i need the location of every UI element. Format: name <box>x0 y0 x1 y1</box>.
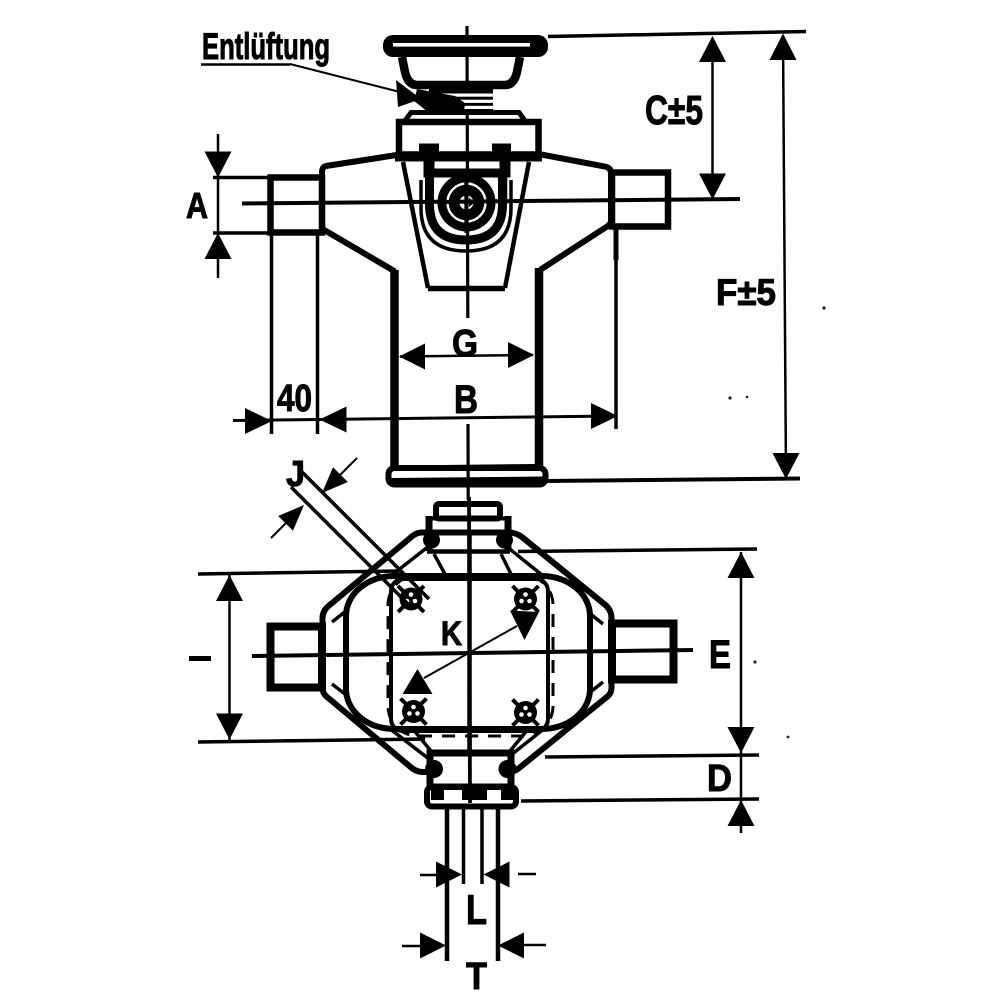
bell outer thin arc <box>421 180 511 251</box>
bottom stack <box>412 728 529 807</box>
bonnet flange trapezoid <box>404 113 526 123</box>
skirt <box>403 162 428 288</box>
scan specks <box>728 396 731 399</box>
white center hole <box>460 196 474 210</box>
centerline overlays through shaft <box>437 199 497 204</box>
vertical centerline <box>465 26 469 318</box>
extension lines below <box>270 230 274 434</box>
lower crosshair <box>467 530 472 800</box>
handwheel rim <box>383 35 548 57</box>
svg-text:D: D <box>707 758 732 800</box>
svg-text:F±5: F±5 <box>716 272 776 313</box>
svg-text:K: K <box>441 615 462 653</box>
left pipe (upper view) <box>271 178 323 233</box>
C dimension <box>711 40 714 196</box>
mounting square <box>391 579 548 731</box>
left pipe (lower view) <box>271 627 323 688</box>
bolts with X arms <box>398 586 539 726</box>
yoke lugs <box>419 144 439 156</box>
J dimension <box>302 472 429 599</box>
L dimension <box>420 874 437 877</box>
G dimension <box>400 355 533 357</box>
handwheel hub bowl <box>402 57 520 85</box>
Entlüftung leader arrow <box>396 80 421 107</box>
pipe centerline <box>242 199 740 204</box>
cylinder <box>390 270 399 470</box>
T dimension <box>402 945 420 948</box>
svg-text:G: G <box>452 323 478 365</box>
squircle body <box>346 576 590 729</box>
svg-text:J: J <box>286 453 305 494</box>
top stack <box>423 504 513 576</box>
stem lines <box>445 806 450 961</box>
D dimension <box>521 799 759 801</box>
octagon outer <box>323 533 612 773</box>
top extension line <box>548 32 806 37</box>
K dimension <box>424 626 517 678</box>
stem packing stack <box>429 84 493 112</box>
svg-text:L: L <box>466 886 487 933</box>
dashed bolt square <box>388 575 553 736</box>
octagon inner diagonals <box>332 546 429 622</box>
svg-text:A: A <box>186 185 208 226</box>
shaft black disc <box>438 174 496 232</box>
bonnet rectangle <box>399 122 539 155</box>
F bottom extension <box>545 479 800 482</box>
svg-text:C±5: C±5 <box>645 87 703 133</box>
F dimension <box>783 38 786 477</box>
left unnamed dimension <box>198 571 400 574</box>
svg-text:E: E <box>709 633 731 677</box>
yoke bracket <box>424 155 435 173</box>
svg-text:Entlüftung: Entlüftung <box>202 26 330 67</box>
right pipe (lower view) <box>612 624 674 680</box>
white ring <box>448 184 486 222</box>
centerline overlay through stacks <box>469 497 470 803</box>
right pipe (upper view) <box>612 173 668 227</box>
housing outline <box>322 155 400 272</box>
svg-text:40: 40 <box>277 378 312 420</box>
E dimension <box>518 549 757 552</box>
bell thick arc <box>430 177 503 240</box>
vent (Entlüftung) blob <box>414 89 465 112</box>
B / 40 dimension line <box>233 416 616 421</box>
A dimension <box>217 134 220 278</box>
housing top plate <box>395 154 542 162</box>
svg-text:T: T <box>466 956 487 998</box>
svg-text:B: B <box>454 378 478 422</box>
